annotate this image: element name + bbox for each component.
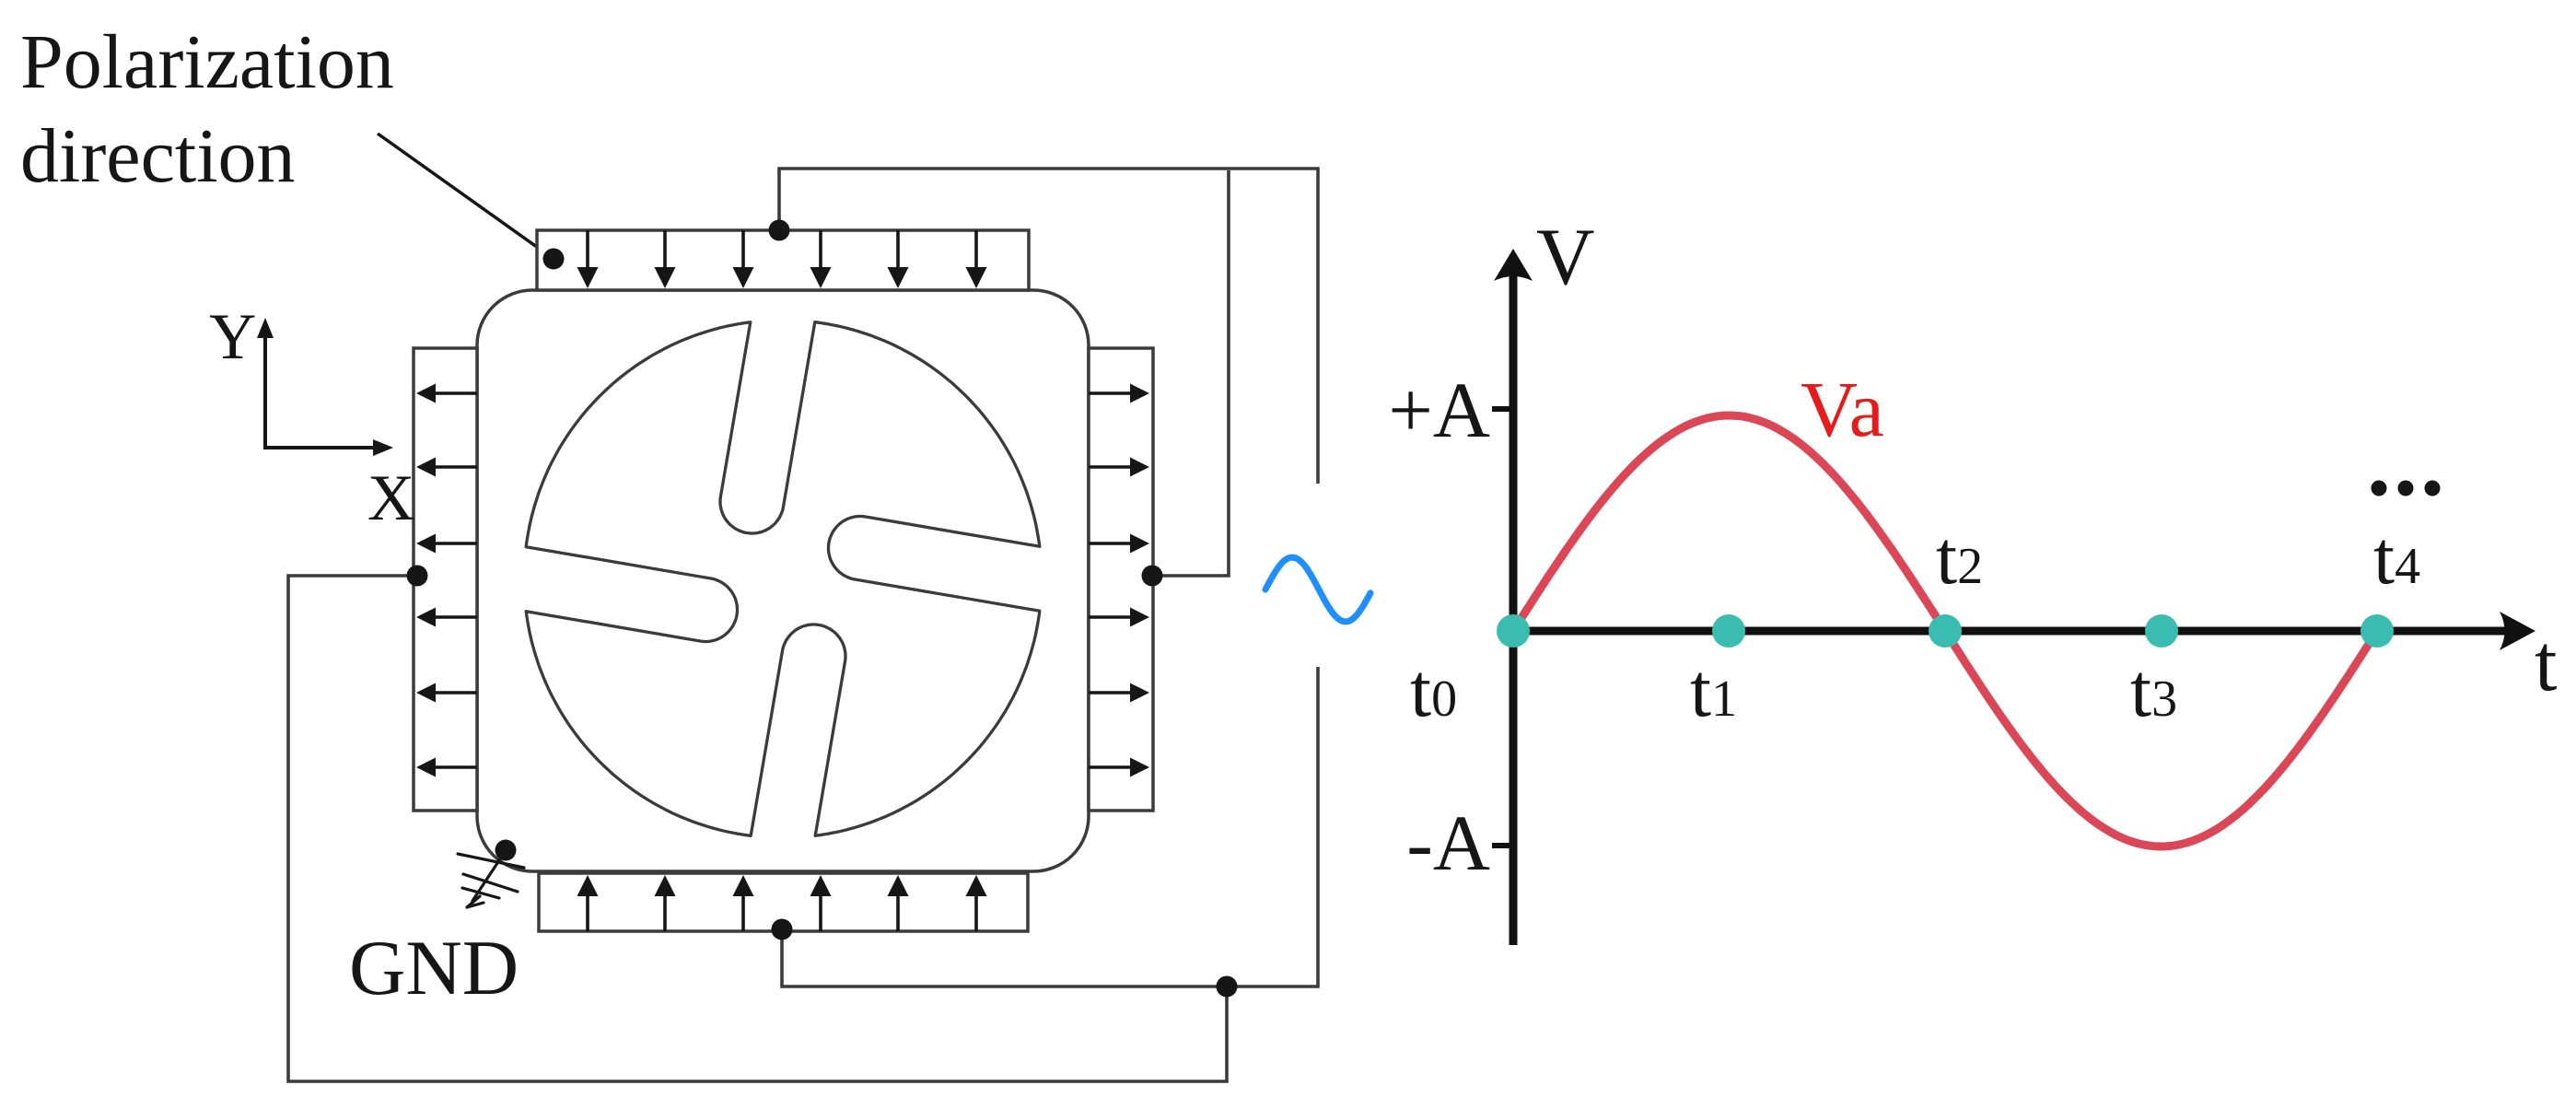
graph t axis xyxy=(1513,627,2510,636)
node ground corner xyxy=(495,840,517,861)
svg-text:X: X xyxy=(367,462,414,534)
AC source V1 sine xyxy=(1265,557,1370,622)
node left electrode junction xyxy=(407,566,428,587)
node right electrode junction xyxy=(1142,566,1163,587)
wire bottom electrode to AC source bottom xyxy=(782,667,1318,986)
svg-text:-A: -A xyxy=(1406,799,1490,887)
wire right electrode to top rail xyxy=(1152,170,1229,576)
node t0 xyxy=(1497,614,1530,648)
svg-text:+A: +A xyxy=(1388,366,1490,454)
curve Va red sine xyxy=(1513,415,2375,846)
node ground rail junction xyxy=(1217,976,1238,998)
tick -A xyxy=(1492,843,1516,848)
tick +A xyxy=(1492,406,1516,412)
svg-text:Polarization: Polarization xyxy=(20,19,394,105)
stator square xyxy=(477,290,1089,871)
ground symbol xyxy=(458,849,524,907)
node polarization pointer xyxy=(543,249,565,270)
svg-text:GND: GND xyxy=(349,925,519,1011)
svg-text:Va: Va xyxy=(1801,365,1884,453)
electrode bottom xyxy=(539,873,1028,931)
wire ground rail to left electrode xyxy=(288,576,1227,1081)
polarization arrows top electrode xyxy=(577,230,987,288)
ellipsis continuation dots xyxy=(2372,481,2387,496)
polarization arrows left electrode xyxy=(416,384,477,777)
svg-text:V: V xyxy=(1536,213,1595,302)
svg-text:direction: direction xyxy=(20,113,296,199)
leader line polarization xyxy=(378,134,554,259)
node top electrode junction xyxy=(769,220,790,241)
electrode left xyxy=(414,348,477,811)
node t4 xyxy=(2360,614,2394,648)
node t2 xyxy=(1929,614,1962,648)
node t1 xyxy=(1712,614,1745,648)
polarization arrows bottom electrode xyxy=(577,875,987,931)
svg-text:Y: Y xyxy=(209,301,256,373)
polarization arrows right electrode xyxy=(1089,384,1149,777)
electrode top xyxy=(537,230,1029,290)
graph V axis xyxy=(1509,272,1518,945)
node t3 xyxy=(2145,614,2178,648)
axis XY coordinate xyxy=(265,333,382,448)
node bottom electrode junction xyxy=(772,919,793,940)
rotor disk with spiral slots xyxy=(526,322,1040,836)
svg-text:t: t xyxy=(2535,619,2557,708)
wire top electrode to AC source top xyxy=(779,169,1318,484)
electrode right xyxy=(1089,348,1153,811)
